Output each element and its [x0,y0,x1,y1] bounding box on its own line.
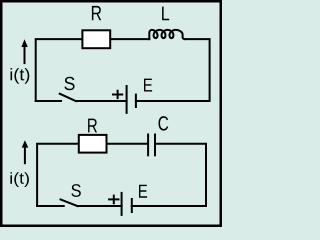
label E (top battery) [144,79,152,92]
switch S blade (bottom circuit) [61,199,78,206]
wire: bottom circuit capacitor to top-right corner, right vertical, down to battery [132,144,206,206]
label C (bottom capacitor) [159,116,169,131]
wire: bottom circuit bottom-left segment to switch contact [37,205,64,207]
current arrow i(t) shaft (bottom circuit) [24,147,26,165]
battery E short negative plate (bottom circuit) [131,199,133,212]
wire: top circuit switch to battery positive plate [76,100,127,102]
wire: top circuit inductor to top-right corner, right vertical, down to battery [136,39,210,101]
inductor L (top circuit) [149,30,184,39]
label R (top resistor) [92,6,101,20]
polarity plus sign (top battery) [113,91,122,98]
current arrow i(t) head (top circuit) [21,39,27,47]
current arrow i(t) head (bottom circuit) [22,140,29,147]
label S (top switch) [64,77,74,90]
label S (bottom switch) [71,184,80,197]
label R (bottom resistor) [88,119,97,133]
battery E long positive plate (bottom circuit) [121,193,123,215]
wire: top circuit left vertical and top-left segment to resistor [36,39,82,101]
resistor R (top circuit) [82,30,110,48]
label i(t) (bottom circuit) [10,172,29,187]
current arrow i(t) shaft (top circuit) [24,46,26,64]
switch S blade (top circuit) [60,94,76,101]
resistor R (bottom circuit) [79,135,107,153]
wire: top circuit between resistor and inductor [111,38,150,40]
battery E long positive plate (top circuit) [126,86,128,113]
capacitor C left plate (bottom circuit) [147,135,149,156]
label i(t) (top circuit) [11,68,30,84]
battery E short negative plate (top circuit) [135,95,137,107]
wire: bottom circuit between resistor and capacitor [107,143,147,145]
wire: top circuit bottom-left segment to switch contact [36,100,61,102]
label E (bottom battery) [139,185,147,198]
capacitor C right plate (bottom circuit) [154,135,156,156]
label L (top inductor) [162,7,169,21]
wire: bottom circuit left vertical and top-left segment to resistor [37,144,78,206]
polarity plus sign (bottom battery) [109,196,118,204]
wire: bottom circuit switch to battery positive plate [78,205,122,207]
